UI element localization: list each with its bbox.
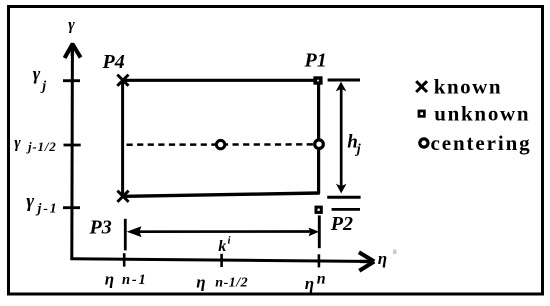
y-axis (gamma axis) — [70, 53, 74, 260]
y tick gamma_j-1 — [63, 206, 80, 209]
h_j dimension top bar — [328, 79, 360, 82]
centering circle middle — [216, 140, 224, 148]
y tick gamma_j — [63, 79, 80, 82]
svg-text:P4: P4 — [102, 51, 125, 73]
svg-text:n-1/2: n-1/2 — [215, 275, 248, 290]
svg-text:η: η — [196, 273, 205, 292]
unknown square at P1 — [313, 76, 322, 84]
x label eta_n-1 — [105, 269, 148, 288]
y label gamma_j — [33, 64, 47, 95]
svg-text:unknown: unknown — [434, 101, 530, 125]
svg-text:j-1: j-1 — [36, 202, 59, 217]
centering circle right — [315, 140, 324, 149]
k^i dimension right tick — [318, 215, 321, 248]
x-axis arrowhead — [359, 252, 374, 271]
k^i arrowhead left — [127, 226, 142, 237]
svg-text:n: n — [317, 270, 326, 287]
stray scan artifact right of eta — [393, 250, 397, 255]
y-axis arrowhead — [65, 43, 81, 58]
legend known cross — [416, 81, 427, 92]
unknown square at P2 — [315, 206, 323, 214]
svg-text:k: k — [218, 238, 226, 255]
cell rectangle top edge — [123, 79, 318, 82]
x tick eta_n — [318, 254, 321, 267]
y tick gamma_j-1/2 — [64, 144, 81, 147]
cell rectangle right edge — [317, 80, 320, 194]
h_j dimension bottom bar — [327, 196, 360, 199]
h_j arrowhead up — [336, 82, 347, 92]
h_j dimension shaft — [340, 85, 343, 189]
x-axis (eta axis) — [70, 259, 363, 262]
overline of P2 — [332, 208, 360, 211]
cell rectangle bottom edge — [123, 193, 320, 196]
label h_j — [347, 132, 361, 158]
svg-text:η: η — [105, 269, 114, 288]
known cross at P4 — [117, 75, 128, 86]
svg-text:n-1: n-1 — [122, 272, 148, 288]
svg-text:γ: γ — [26, 191, 34, 212]
svg-text:η: η — [378, 249, 387, 268]
x tick eta_n-1/2 — [220, 254, 223, 267]
cell rectangle left edge — [121, 79, 124, 197]
h_j arrowhead down — [336, 184, 347, 194]
svg-text:η: η — [305, 274, 314, 293]
x label eta_n — [305, 270, 326, 292]
x label eta_n-1/2 — [196, 273, 248, 292]
svg-text:P3: P3 — [89, 216, 112, 238]
svg-text:centering: centering — [431, 131, 532, 155]
y label gamma_j-1/2 — [14, 135, 56, 155]
svg-text:known: known — [434, 74, 502, 98]
k^i dimension line — [130, 230, 313, 233]
svg-text:P1: P1 — [304, 50, 327, 72]
known cross at P3 — [117, 191, 128, 202]
legend centering circle — [420, 139, 428, 147]
svg-text:P2: P2 — [330, 213, 353, 235]
svg-text:j-1/2: j-1/2 — [26, 139, 57, 154]
centering dashed line — [127, 143, 314, 146]
k^i dimension left tick — [124, 219, 127, 251]
y label gamma_j-1 — [26, 191, 58, 217]
svg-text:γ: γ — [14, 135, 21, 152]
svg-text:γ: γ — [68, 17, 75, 34]
k^i arrowhead right — [309, 228, 320, 237]
x tick eta_n-1 — [123, 253, 126, 266]
svg-text:γ: γ — [33, 64, 41, 84]
label k^i — [218, 235, 231, 255]
legend unknown square — [418, 110, 426, 118]
